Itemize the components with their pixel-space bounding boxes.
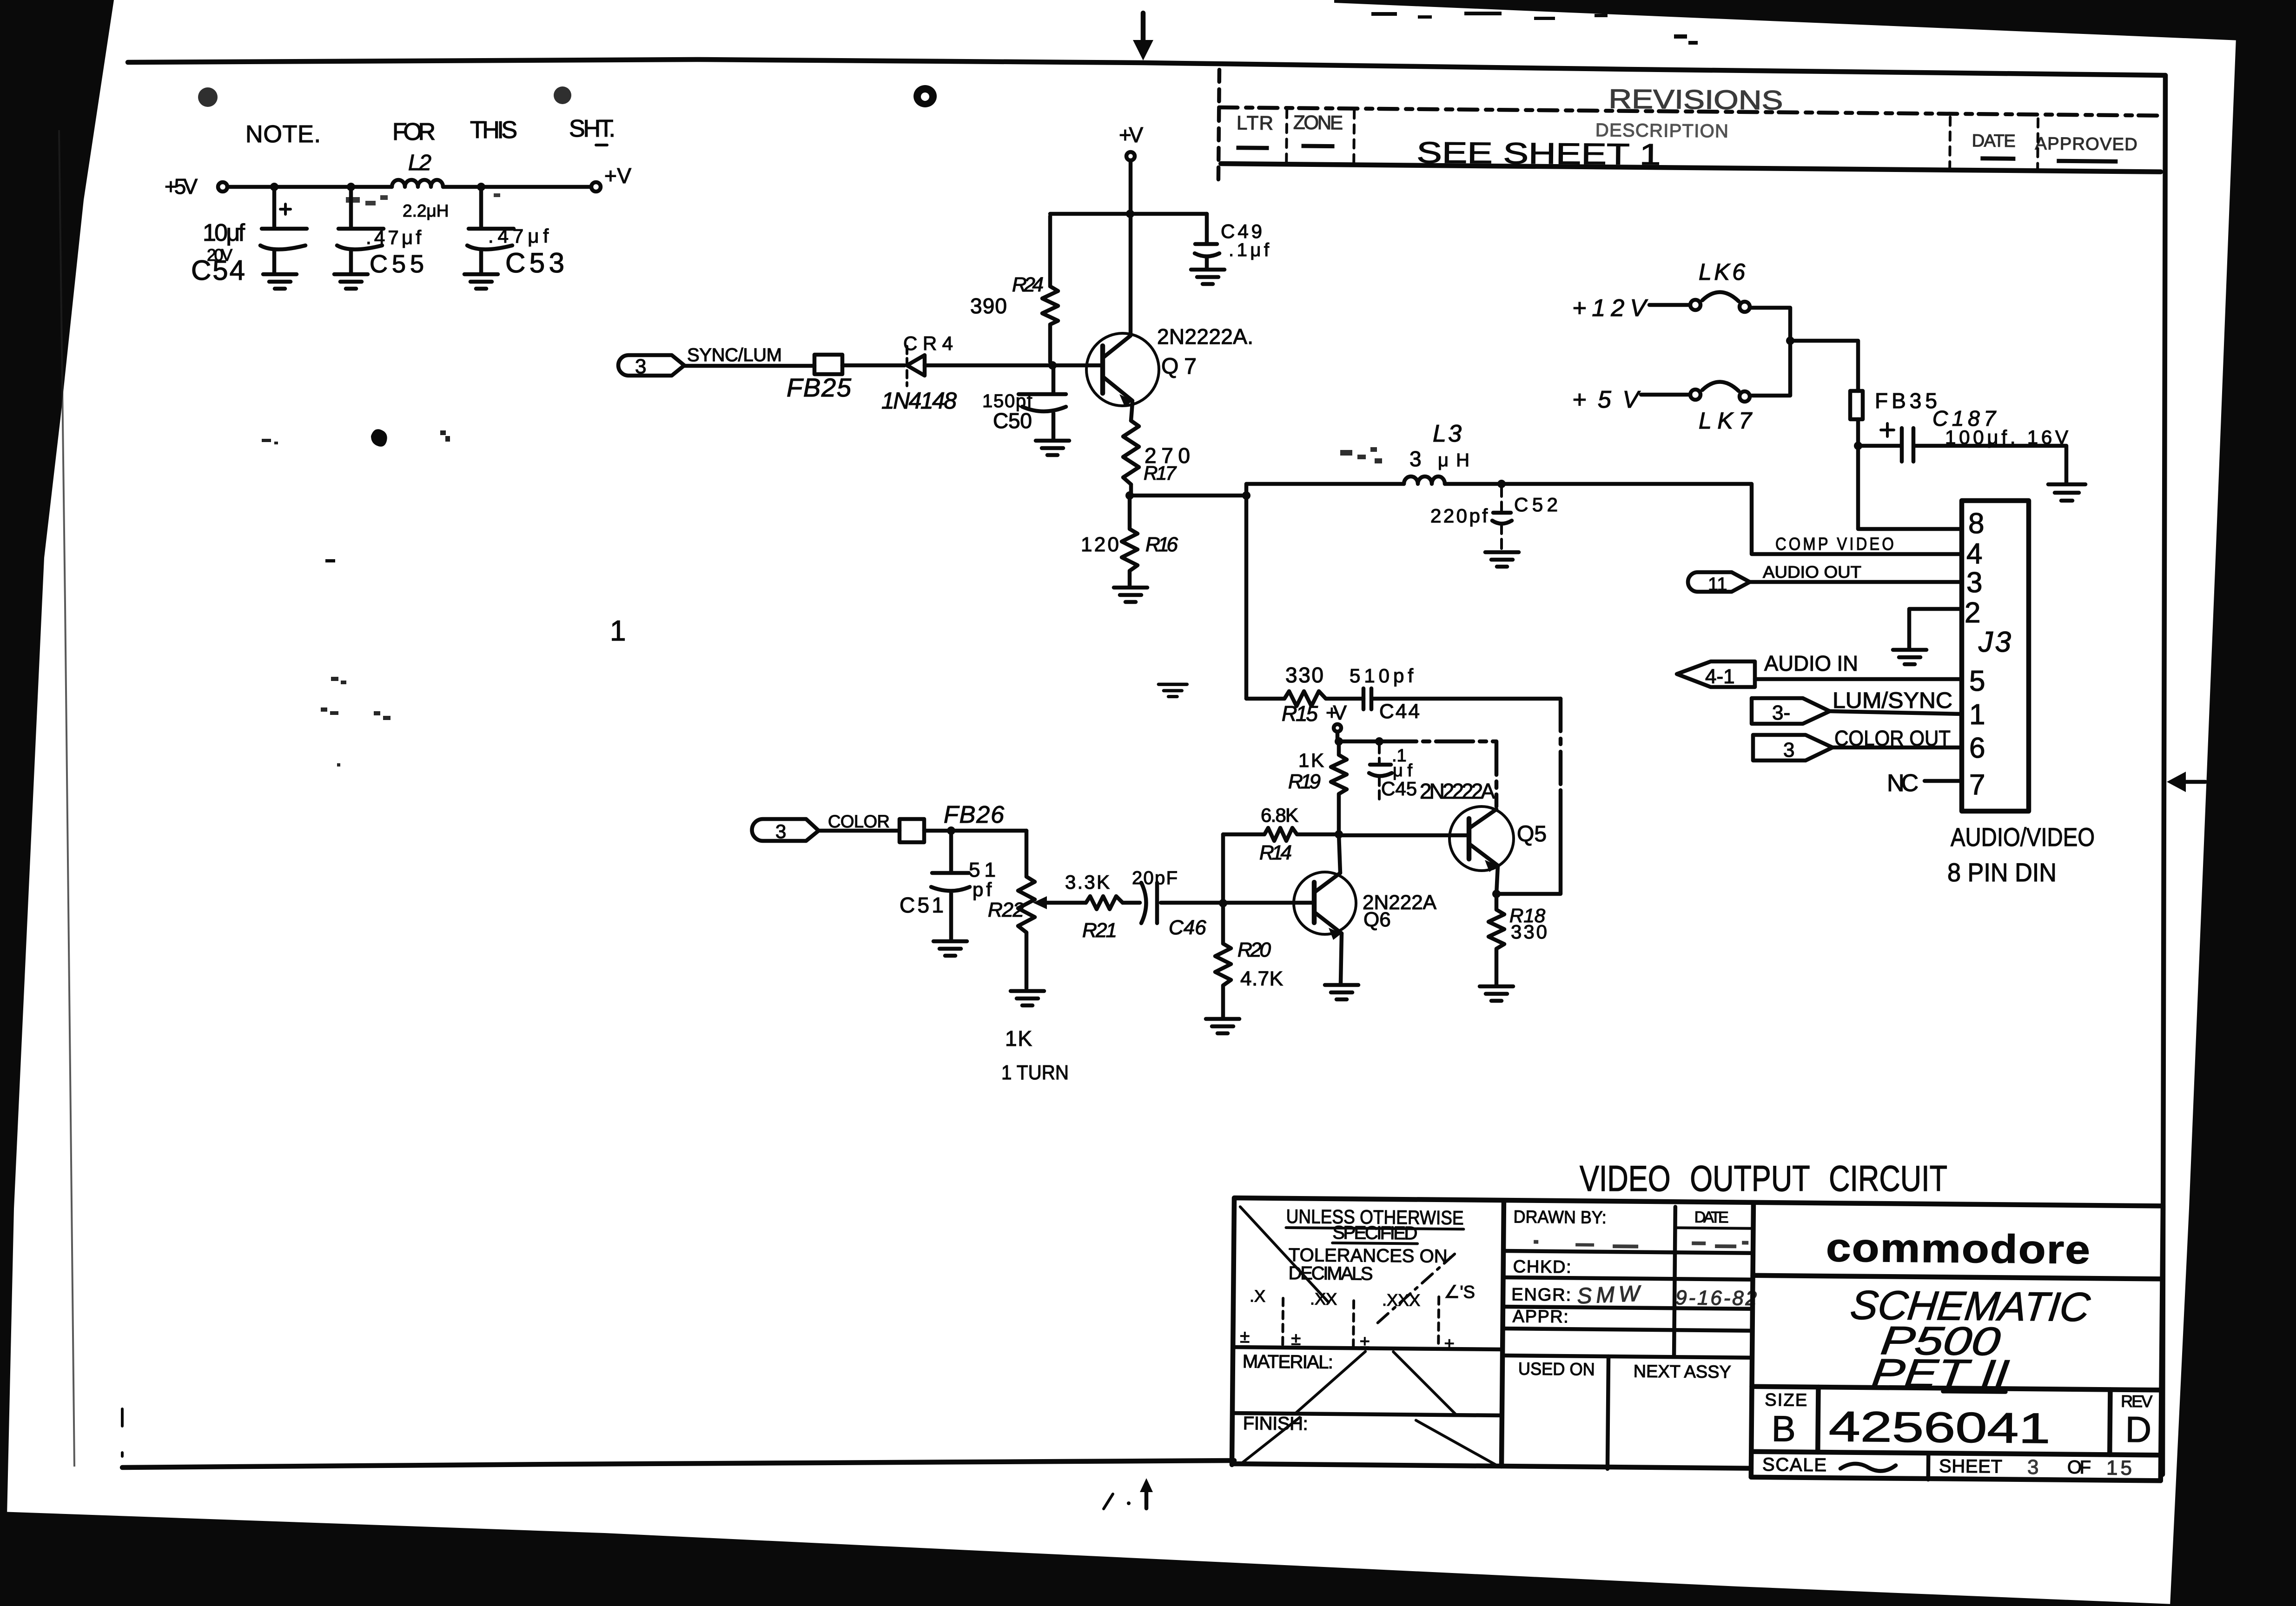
ground for Q6 emitter [1325, 985, 1358, 999]
svg-text:Q6: Q6 [1363, 908, 1391, 931]
node junction Q6 base R20 [1219, 899, 1227, 907]
transistor Q7 2N2222A [1086, 324, 1253, 407]
stray speck cluster b [321, 677, 390, 767]
svg-text:COLOR: COLOR [828, 812, 890, 832]
svg-text:220pf: 220pf [1430, 505, 1488, 527]
wire base rail [1161, 901, 1314, 905]
svg-text:R21: R21 [1082, 919, 1117, 942]
node junction links [1786, 337, 1794, 345]
svg-text:DATE: DATE [1694, 1209, 1728, 1227]
node junction C45 [1375, 737, 1383, 746]
svg-text:4.7K: 4.7K [1240, 967, 1283, 990]
revisions APPROVED dash [2057, 159, 2117, 164]
svg-text:SIZE: SIZE [1765, 1390, 1807, 1410]
wire FB26 to R22 top [924, 829, 1026, 833]
pointer 3 COLOR OUT [1753, 735, 1833, 761]
title block right edge lower [2161, 1206, 2163, 1480]
resistor R17 270 [1123, 421, 1190, 484]
wire FB35 to node [1856, 419, 1860, 446]
svg-text:C50: C50 [993, 409, 1032, 433]
svg-text:2N2222A: 2N2222A [1420, 779, 1495, 803]
svg-text:C46: C46 [1169, 916, 1206, 939]
svg-text:ENGR:: ENGR: [1511, 1285, 1571, 1305]
svg-text:FOR: FOR [392, 119, 436, 145]
+V terminal lower [1326, 701, 1347, 740]
svg-text:DATE: DATE [1972, 131, 2016, 151]
svg-text:3: 3 [2027, 1456, 2039, 1479]
svg-text:C55: C55 [370, 250, 424, 278]
note text NOTE. FOR THIS SHT. [245, 115, 615, 148]
ground for C187 [2048, 484, 2085, 501]
node junction collector rail [1126, 210, 1134, 218]
+5V terminal circle [218, 182, 227, 192]
svg-text:APPROVED: APPROVED [2035, 134, 2137, 154]
svg-text:10μf: 10μf [203, 219, 245, 246]
black scanner band right edge [2170, 26, 2296, 1606]
revisions table dashed line under title [1219, 107, 2161, 116]
resistor R20 4.7K [1215, 903, 1283, 1017]
title PET II [1869, 1351, 2011, 1396]
black scanner band bottom [0, 1512, 2296, 1606]
svg-text:C54: C54 [191, 255, 245, 286]
node junction R19 bottom base Q5 [1335, 830, 1343, 839]
+V output terminal [591, 164, 631, 192]
svg-text:R17: R17 [1144, 462, 1177, 484]
svg-text:100μf. 16V: 100μf. 16V [1945, 426, 2068, 448]
svg-text:3: 3 [1783, 739, 1794, 761]
title block bottom line [1751, 1477, 2161, 1481]
svg-text:SYNC/LUM: SYNC/LUM [687, 345, 782, 365]
scale row line [1751, 1452, 2161, 1455]
svg-text:Q5: Q5 [1517, 822, 1547, 846]
wire Q5 emitter to node [1496, 866, 1498, 894]
ground for R22 [1011, 991, 1044, 1005]
wire +5V rail [227, 185, 591, 189]
svg-text:1K: 1K [1298, 749, 1324, 771]
svg-text:20pF: 20pF [1132, 868, 1178, 888]
revisions ZONE dash [1302, 144, 1335, 149]
wire +V rail Q7 [1050, 212, 1207, 216]
title block material row line [1233, 1347, 1502, 1349]
svg-text:5: 5 [1969, 665, 1985, 697]
svg-text:APPR:: APPR: [1513, 1307, 1568, 1327]
size row line [1752, 1387, 2161, 1390]
top margin down arrow [1133, 13, 1153, 60]
svg-text:commodore: commodore [1826, 1225, 2091, 1272]
top edge specks [44, 12, 1698, 45]
svg-text:AUDIO IN: AUDIO IN [1764, 651, 1858, 675]
size divider [1818, 1387, 1818, 1452]
ground for C50 [1036, 441, 1069, 455]
ground for R18 [1480, 986, 1513, 1001]
svg-text:390: 390 [970, 294, 1007, 318]
svg-text:6: 6 [1969, 732, 1985, 764]
wire base node to Q5 [1339, 833, 1469, 838]
wire CR4 to base node [925, 363, 1103, 368]
revisions table divider ZONE/DESCRIPTION [1354, 110, 1354, 169]
svg-text:R15: R15 [1282, 701, 1318, 726]
svg-text:LTR: LTR [1237, 112, 1273, 134]
potentiometer R22 1K 1 TURN [988, 831, 1069, 1084]
svg-text:±: ± [1240, 1327, 1250, 1347]
svg-text:L2: L2 [408, 151, 431, 175]
svg-text:120: 120 [1081, 533, 1119, 556]
registration mark dot 2 [554, 86, 571, 104]
bottom margin up arrow [1140, 1478, 1153, 1508]
pointer 4-1 AUDIO IN [1677, 661, 1755, 688]
wire emitter to R17 [1131, 403, 1132, 421]
svg-text:+5V: +5V [1572, 386, 1641, 413]
svg-text:NEXT ASSY: NEXT ASSY [1634, 1362, 1731, 1382]
svg-text:NOTE.: NOTE. [245, 121, 321, 148]
paper fold line left [59, 130, 74, 1467]
revisions LTR dash [1236, 145, 1269, 150]
svg-text:ZONE: ZONE [1293, 111, 1343, 133]
pointer 11 AUDIO OUT [1688, 572, 1750, 595]
svg-text:∠'S: ∠'S [1444, 1282, 1475, 1302]
svg-text:FB26: FB26 [944, 801, 1004, 828]
svg-text:VIDEO OUTPUT CIRCUIT: VIDEO OUTPUT CIRCUIT [1580, 1158, 1947, 1199]
capacitor C54 [191, 187, 307, 286]
wiper arrow to R22 [1033, 896, 1086, 909]
wire C44 feedback to emitter node [1559, 699, 1563, 790]
svg-text:SCALE: SCALE [1762, 1454, 1826, 1475]
svg-text:AUDIO/VIDEO: AUDIO/VIDEO [1951, 822, 2095, 852]
appr row line [1503, 1328, 1753, 1331]
ground for R16 [1114, 588, 1147, 602]
svg-text:6.8K: 6.8K [1261, 804, 1298, 826]
svg-text:.X: .X [1250, 1286, 1265, 1305]
bottom margin slash mark [1104, 1494, 1113, 1509]
scale sheet divider [1926, 1453, 1931, 1480]
svg-text:AUDIO OUT: AUDIO OUT [1763, 562, 1861, 582]
revisions table divider DESCRIPTION/DATE [1950, 117, 1950, 176]
svg-text:B: B [1771, 1408, 1796, 1449]
svg-text:1 TURN: 1 TURN [1001, 1061, 1069, 1084]
capacitor C55 [337, 187, 424, 278]
node junction emitter R18 [1492, 890, 1501, 898]
svg-text:SPECIFIED: SPECIFIED [1332, 1223, 1417, 1244]
svg-text:8: 8 [1968, 508, 1984, 540]
material cell cross lines [1295, 1351, 1456, 1415]
svg-text:SHEET: SHEET [1939, 1456, 2002, 1477]
capacitor C50 [982, 369, 1066, 440]
ferrite bead FB26 [900, 801, 1004, 842]
capacitor C49 [1195, 214, 1270, 269]
pointer 3 COLOR [752, 819, 819, 842]
svg-text:4: 4 [1966, 538, 1982, 570]
ink smudge near L3 [1340, 447, 1382, 463]
wire color out to pin6 [1833, 746, 1962, 750]
svg-text:3: 3 [1409, 447, 1422, 471]
+V terminal Q7 [1119, 123, 1143, 160]
wire L3 to C52 node [1445, 482, 1502, 486]
revisions table bottom line [1221, 164, 2161, 172]
stray ink blob [371, 429, 387, 447]
engr row line [1503, 1307, 1753, 1309]
wire R17 to node [1129, 484, 1133, 496]
drawn by cell [1512, 1205, 1753, 1357]
tolerance dashed separators [1283, 1295, 1439, 1349]
svg-text:+V: +V [604, 164, 631, 188]
ground for C49 [1191, 270, 1224, 284]
svg-text:11: 11 [1708, 574, 1727, 595]
node junction C54 [270, 183, 278, 191]
node junction C53 [477, 183, 485, 191]
wire FB25 to CR4 [842, 363, 905, 368]
node junction R17/R16 [1125, 491, 1134, 500]
svg-text:FB25: FB25 [787, 373, 852, 402]
connector J3 body [1962, 501, 2029, 811]
capacitor C44 510pf [1350, 665, 1561, 723]
pointer 3 SYNC/LUM [618, 355, 684, 378]
chkd row line [1503, 1277, 1753, 1280]
wire node to comp video corner [1502, 484, 1962, 554]
wire branch vertical up [1246, 484, 1404, 699]
registration mark dot 1 [198, 87, 218, 107]
link LK6 [1649, 259, 1750, 312]
svg-text:2: 2 [1965, 597, 1980, 629]
svg-text:CHKD:: CHKD: [1513, 1257, 1571, 1277]
svg-text:±: ± [1444, 1335, 1454, 1354]
svg-text:330: 330 [1511, 921, 1547, 943]
svg-text:C44: C44 [1379, 700, 1420, 723]
svg-text:REV: REV [2121, 1392, 2152, 1411]
svg-text:C52: C52 [1514, 494, 1558, 516]
svg-text:R14: R14 [1259, 841, 1292, 864]
svg-text:+V: +V [1326, 701, 1347, 724]
wire color pointer to FB26 [819, 829, 900, 833]
svg-text:NC: NC [1887, 770, 1919, 797]
svg-text:3.3K: 3.3K [1065, 871, 1110, 893]
svg-text:2N2222A.: 2N2222A. [1157, 324, 1253, 349]
resistor R16 120 [1081, 496, 1178, 587]
bottom margin speck [1127, 1501, 1131, 1505]
ground for C55 [334, 274, 368, 289]
NC pin7 [1887, 770, 1962, 797]
svg-text:1: 1 [1969, 699, 1985, 731]
svg-text:D: D [2125, 1409, 2151, 1450]
wire pin2 to ground [1909, 609, 1962, 648]
registration mark donut 3 [913, 85, 937, 107]
resistor R18 330 [1489, 894, 1547, 985]
rev divider [2110, 1389, 2110, 1454]
svg-text:3: 3 [635, 355, 646, 378]
svg-text:R24: R24 [1012, 273, 1044, 296]
svg-text:MATERIAL:: MATERIAL: [1243, 1351, 1333, 1373]
link LK7 [1641, 382, 1753, 434]
node junction R19 top [1335, 737, 1343, 746]
svg-text:OF: OF [2067, 1457, 2091, 1478]
svg-text:+5V: +5V [165, 174, 198, 198]
right border arrow [2167, 772, 2205, 792]
svg-text:1N4148: 1N4148 [881, 388, 957, 414]
node junction L3 branch [1242, 491, 1251, 500]
wire node rail to Q5 collector [1339, 740, 1379, 744]
ferrite bead FB25 [787, 355, 852, 402]
svg-text:8 PIN DIN: 8 PIN DIN [1947, 858, 2057, 887]
inductor L3 3uH [1404, 420, 1469, 484]
ground for C54 [263, 274, 297, 289]
svg-text:LUM/SYNC: LUM/SYNC [1833, 688, 1952, 713]
resistor R15 330 [1246, 663, 1363, 726]
svg-text:7: 7 [1969, 769, 1985, 801]
wire pointer to FB25 [684, 364, 814, 368]
svg-text:4256041: 4256041 [1828, 1403, 2051, 1452]
tolerance diagonal dashed line [1378, 1252, 1456, 1323]
stray speck cluster a [262, 430, 450, 444]
node junction Q7 base [1048, 361, 1057, 370]
svg-text:C45: C45 [1381, 778, 1417, 800]
sheet frame border right line [2163, 75, 2165, 1474]
sheet frame border bottom line [122, 1461, 1234, 1467]
svg-text:1K: 1K [1005, 1026, 1032, 1051]
scale squiggle [1840, 1464, 1896, 1471]
node junction C52 [1497, 480, 1506, 488]
wire junction to FB35 [1790, 341, 1858, 391]
drawn by signature scribble [1534, 1239, 1748, 1249]
transistor Q5 2N2222A [1449, 806, 1547, 872]
title block outer box [1232, 1198, 2163, 1473]
node junction C51 tap [947, 826, 955, 835]
inductor L2 [392, 151, 449, 220]
capacitor C46 20pF [1123, 868, 1206, 939]
svg-text:pf: pf [973, 879, 992, 900]
ground for C52 [1485, 552, 1519, 567]
svg-text:COMP VIDEO: COMP VIDEO [1775, 535, 1896, 554]
stray dash mark [325, 559, 335, 562]
node junction C55 [347, 183, 355, 191]
svg-text:LK6: LK6 [1699, 259, 1745, 285]
title block divider commodore column [1751, 1204, 1753, 1477]
svg-text:3: 3 [1966, 567, 1982, 599]
svg-text:3-: 3- [1772, 701, 1790, 724]
svg-text:CR4: CR4 [903, 332, 953, 354]
svg-text:R22: R22 [988, 899, 1024, 921]
capacitor C52 220pf [1430, 487, 1558, 551]
svg-text:+V: +V [1119, 123, 1143, 147]
revisions table divider LTR/ZONE [1286, 109, 1287, 168]
black scanner band top right [1334, 0, 2296, 43]
sheet frame border top line [128, 59, 2165, 75]
svg-text:SHT.: SHT. [569, 115, 615, 142]
ground for R20 [1206, 1019, 1239, 1033]
diode CR4 1N4148 [881, 332, 957, 414]
resistor R19 1K [1288, 741, 1347, 832]
svg-text:THIS: THIS [470, 117, 517, 144]
drawn by row line [1503, 1251, 1753, 1253]
tolerance note UNLESS OTHERWISE SPECIFIED [1286, 1205, 1464, 1244]
revisions table left dashed border [1218, 70, 1219, 187]
ferrite bead FB35 [1850, 389, 1937, 419]
svg-text:510pf: 510pf [1350, 665, 1413, 687]
svg-text:330: 330 [1285, 663, 1323, 687]
used on row line [1502, 1355, 1752, 1358]
wire C187 node to pin8 [1858, 446, 1962, 529]
wire Q6 emitter to ground [1341, 933, 1342, 983]
commodore box line [1753, 1276, 2163, 1279]
svg-text:1: 1 [610, 615, 626, 647]
tolerance plus minus marks [1240, 1327, 1454, 1354]
title block divider tolerance column [1502, 1201, 1504, 1466]
capacitor C53 [467, 187, 564, 278]
resistor R14 6.8K [1223, 804, 1335, 864]
ground for C45 [1158, 684, 1187, 696]
wire +V to collector [1129, 160, 1133, 334]
wire R14 left to Q6 base rail [1221, 834, 1225, 903]
used on divider [1608, 1356, 1608, 1469]
wire audio in to pin5 [1755, 677, 1962, 681]
svg-text:R20: R20 [1237, 938, 1271, 961]
ink smudge near L2 [346, 193, 500, 205]
svg-text:C51: C51 [900, 893, 944, 917]
wire LK7 to junction [1750, 342, 1790, 396]
ground for C51 [933, 941, 967, 956]
svg-text:4-1: 4-1 [1705, 665, 1735, 688]
svg-text:DRAWN BY:: DRAWN BY: [1513, 1207, 1606, 1228]
black scanner band left edge [0, 0, 114, 1516]
transistor Q6 2N2222A [1294, 872, 1437, 940]
finish cell cross lines [1243, 1417, 1496, 1465]
wire node to L3 branch [1130, 494, 1246, 498]
wire lum sync to pin1 [1830, 711, 1962, 714]
pointer 3- LUM/SYNC [1752, 698, 1830, 724]
svg-text:USED ON: USED ON [1518, 1359, 1595, 1379]
svg-text:SEE SHEET 1: SEE SHEET 1 [1416, 136, 1661, 172]
revisions table divider DATE/APPROVED [2038, 119, 2038, 177]
svg-text:R16: R16 [1145, 533, 1178, 556]
node junction C187 [1854, 442, 1862, 450]
svg-text:FINISH:: FINISH: [1243, 1413, 1308, 1434]
svg-text:LK7: LK7 [1699, 408, 1753, 434]
resistor R24 390 [970, 216, 1058, 362]
title block finish row line [1232, 1413, 1502, 1415]
svg-text:C49: C49 [1221, 220, 1262, 242]
svg-text:C53: C53 [505, 247, 564, 278]
revisions DATE dash [1980, 156, 2015, 161]
svg-text:R19: R19 [1288, 770, 1321, 793]
svg-text:SMW: SMW [1576, 1281, 1642, 1309]
capacitor C51 51pf [900, 831, 996, 939]
wire Q6 collector up [1339, 834, 1340, 873]
frame left end tick [121, 1409, 124, 1456]
capacitor C45 .1uf [1369, 745, 1417, 803]
svg-text:2.2μH: 2.2μH [403, 201, 449, 220]
ground for pin2 [1893, 650, 1926, 664]
ground for C53 [464, 274, 498, 289]
svg-text:3: 3 [775, 820, 786, 842]
tolerance diagonal line [1239, 1207, 1330, 1302]
wire LK6 to junction [1750, 308, 1790, 340]
capacitor C187 100uf 16V [1858, 406, 2068, 482]
wire audio out to pin3 [1750, 580, 1962, 584]
resistor R21 3.3K [1065, 871, 1123, 942]
